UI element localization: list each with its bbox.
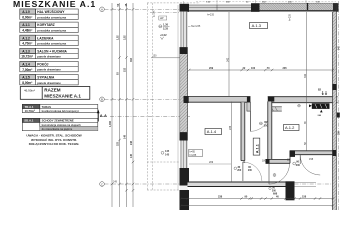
svg-text:342: 342 bbox=[304, 73, 307, 78]
svg-text:MIESZKANIE A.1: MIESZKANIE A.1 bbox=[44, 93, 81, 98]
svg-text:249: 249 bbox=[113, 181, 118, 184]
dimension line left 4 bbox=[132, 3, 134, 207]
svg-text:RAZEM: RAZEM bbox=[44, 88, 61, 93]
svg-text:209: 209 bbox=[209, 161, 214, 164]
svg-text:209: 209 bbox=[209, 67, 214, 70]
svg-text:145: 145 bbox=[130, 153, 133, 158]
left wall bottom column bbox=[180, 190, 190, 210]
svg-text:4,48m²: 4,48m² bbox=[22, 29, 32, 33]
svg-text:1,52: 1,52 bbox=[117, 35, 120, 40]
door salon to corridor: leaf bbox=[249, 111, 251, 131]
svg-text:panele drewniane: panele drewniane bbox=[37, 68, 61, 72]
washer / appliance block in bathroom bbox=[309, 103, 330, 112]
svg-text:158: 158 bbox=[302, 196, 307, 199]
corridor bottom wall bbox=[266, 159, 291, 163]
fixture / wall stub right of door bbox=[268, 107, 282, 111]
svg-text:POKÓJ: POKÓJ bbox=[37, 62, 48, 67]
svg-text:h=235: h=235 bbox=[289, 13, 292, 21]
svg-text:SYPIALNIA: SYPIALNIA bbox=[37, 76, 55, 80]
room table row A.1.3 bbox=[20, 48, 78, 58]
axis line B bbox=[105, 98, 191, 100]
svg-text:180: 180 bbox=[262, 160, 267, 163]
svg-text:16,72m²: 16,72m² bbox=[21, 55, 33, 59]
cropped dimension texts at top edge bbox=[206, 1, 320, 4]
terrace dashed top edge bbox=[147, 2, 200, 4]
svg-text:7,00m²: 7,00m² bbox=[22, 68, 32, 72]
salon horizontal dimension line bbox=[189, 69, 333, 71]
svg-text:KORYTARZ: KORYTARZ bbox=[37, 23, 54, 27]
svg-text:158: 158 bbox=[309, 158, 314, 161]
svg-text:B: B bbox=[101, 98, 103, 102]
door arc bathroom entry bbox=[300, 155, 320, 175]
bottom porch edge lines bbox=[295, 182, 317, 184]
axis line C bbox=[105, 183, 337, 185]
svg-text:148: 148 bbox=[124, 134, 127, 139]
svg-text:238: 238 bbox=[218, 196, 223, 199]
svg-text:kostka brukowa lub kompozyt: kostka brukowa lub kompozyt bbox=[42, 109, 79, 113]
window label LW bbox=[159, 16, 167, 20]
svg-text:konstrukcja stalowa na słupach: konstrukcja stalowa na słupach bbox=[42, 123, 81, 127]
dimension ticks left lines bbox=[111, 8, 134, 191]
svg-text:MIESZKANIE A.1: MIESZKANIE A.1 bbox=[13, 0, 96, 9]
svg-text:posadzka ceramiczna: posadzka ceramiczna bbox=[37, 15, 66, 19]
svg-text:1,30: 1,30 bbox=[163, 23, 169, 27]
svg-text:3,52: 3,52 bbox=[124, 35, 127, 40]
interior wall A.1.4 / corridor vertical bbox=[241, 102, 245, 160]
svg-text:A: A bbox=[101, 8, 103, 12]
terrace step line bbox=[151, 57, 180, 59]
top wall column left corner bbox=[180, 4, 190, 12]
svg-text:8,00m²: 8,00m² bbox=[22, 81, 32, 85]
door jamb stub at salon door bbox=[247, 97, 251, 103]
bottom wall column bbox=[286, 181, 295, 200]
svg-text:46,90m²: 46,90m² bbox=[24, 89, 35, 93]
extension lines above top wall bbox=[216, 0, 218, 5]
svg-text:145: 145 bbox=[165, 154, 170, 157]
svg-text:A.1.4: A.1.4 bbox=[22, 63, 30, 67]
svg-text:10,70m²: 10,70m² bbox=[25, 109, 35, 113]
right wall dark block lower bbox=[337, 113, 340, 118]
level label +1,30 2,35 bbox=[159, 23, 170, 31]
summary row RAZEM MIESZKANIE A.1 bbox=[20, 87, 90, 100]
top wall masonry right part bbox=[260, 3, 338, 11]
svg-text:200: 200 bbox=[296, 164, 301, 167]
svg-text:235: 235 bbox=[283, 67, 288, 70]
door label 80/200 corridor door bbox=[248, 166, 253, 172]
svg-text:h=235: h=235 bbox=[207, 14, 215, 17]
interior wall corridor / bathroom vertical bbox=[268, 101, 272, 159]
svg-text:200: 200 bbox=[264, 124, 269, 127]
dimension line left 1 bbox=[111, 3, 113, 207]
svg-text:DOŁĄCZONYCH DO DOK. TECHN.: DOŁĄCZONYCH DO DOK. TECHN. bbox=[29, 142, 80, 146]
svg-text:SD.A.1: SD.A.1 bbox=[24, 119, 33, 123]
left wall window lower bbox=[180, 141, 188, 169]
terrace dashed mid edge bbox=[147, 161, 180, 163]
svg-text:h=235: h=235 bbox=[190, 154, 197, 157]
svg-text:152: 152 bbox=[124, 67, 127, 72]
door label 90/200 (corridor door) bbox=[234, 166, 242, 172]
door label 80/200 (A.1.4 door) bbox=[260, 121, 269, 128]
header label h=95 h=235 box bbox=[189, 150, 203, 157]
svg-text:150: 150 bbox=[153, 55, 158, 58]
door corridor to A.1.4: leaf bbox=[242, 162, 244, 181]
left wall column at terrace door bbox=[180, 168, 190, 186]
table row TARAS bbox=[22, 104, 98, 112]
left wall column bbox=[180, 132, 188, 140]
svg-text:100: 100 bbox=[251, 67, 256, 70]
dimension line left 2 bbox=[119, 3, 121, 207]
svg-text:SALON + KUCHNIA: SALON + KUCHNIA bbox=[37, 49, 67, 53]
svg-text:posadzka ceramiczna: posadzka ceramiczna bbox=[37, 28, 66, 32]
room table row A.1.4 bbox=[20, 61, 78, 71]
svg-text:A.1.0: A.1.0 bbox=[22, 10, 30, 14]
svg-text:200: 200 bbox=[248, 169, 253, 172]
svg-text:HAL WEJŚCIOWY: HAL WEJŚCIOWY bbox=[37, 9, 65, 14]
axis circle C bbox=[100, 182, 105, 187]
svg-text:LW: LW bbox=[160, 16, 164, 20]
svg-text:4,70m²: 4,70m² bbox=[22, 42, 32, 46]
svg-text:panele drewniane: panele drewniane bbox=[37, 81, 61, 85]
door salon to corridor: swing arc bbox=[250, 111, 270, 131]
svg-text:A.1.2: A.1.2 bbox=[22, 36, 30, 40]
section marker A-A arrow bbox=[97, 109, 107, 121]
bottom dimension line 2 bbox=[181, 205, 333, 207]
top wall window band left bbox=[188, 5, 252, 11]
svg-text:SCHODY ZEWNĘTRZNE: SCHODY ZEWNĘTRZNE bbox=[42, 119, 74, 123]
svg-text:363: 363 bbox=[130, 57, 133, 62]
door label 90/200 hall door bbox=[269, 186, 277, 192]
bottom wall left segment bbox=[188, 182, 286, 187]
svg-text:TARAS: TARAS bbox=[42, 105, 52, 109]
door arc hall to corridor bbox=[269, 164, 290, 185]
window label 145/145 (A.1.4 window) bbox=[161, 150, 170, 157]
room label A.1.1 rotated bbox=[253, 138, 260, 155]
svg-text:+0,02: +0,02 bbox=[160, 33, 167, 37]
svg-text:panele drewniane: panele drewniane bbox=[37, 55, 61, 59]
svg-text:A.1.4: A.1.4 bbox=[207, 129, 217, 134]
door label circle corridor bbox=[273, 174, 276, 177]
svg-text:342: 342 bbox=[226, 57, 229, 62]
room table row A.1.2 bbox=[20, 35, 78, 45]
wall cap corridor bottom left bbox=[266, 159, 270, 164]
room table row A.1.1 bbox=[20, 22, 78, 32]
door corridor to A.1.4: swing arc bbox=[243, 162, 262, 181]
svg-text:236: 236 bbox=[229, 125, 232, 130]
svg-text:A.1.1: A.1.1 bbox=[22, 23, 30, 27]
svg-text:A.1.3: A.1.3 bbox=[252, 23, 262, 28]
top wall inner face line bbox=[188, 11, 338, 13]
A.1.4 vertical dimension line bbox=[231, 102, 233, 183]
axis line A bbox=[105, 8, 339, 10]
svg-text:posadzka ceramiczna: posadzka ceramiczna bbox=[37, 42, 66, 46]
axis stub at wall top bbox=[150, 11, 180, 13]
room table row A.1.0 bbox=[20, 9, 78, 19]
right wall dark block upper bbox=[333, 84, 337, 90]
terrace edge line right bbox=[177, 5, 179, 190]
left wall terrace door gap bbox=[180, 186, 188, 191]
door label 90/200 (bathroom door) bbox=[293, 161, 301, 168]
wall cap bath top-left corner bbox=[268, 96, 275, 101]
room label A.1.2 bbox=[284, 125, 300, 131]
note UWAGA bbox=[26, 133, 81, 146]
terrace dashed bottom edge bbox=[147, 189, 188, 191]
left wall column bbox=[180, 47, 188, 54]
wall cap at bath door jamb bbox=[290, 150, 296, 157]
svg-text:A-A: A-A bbox=[100, 113, 107, 118]
table row SCHODY ZEWNETRZNE bbox=[22, 118, 98, 130]
svg-text:323: 323 bbox=[117, 141, 120, 146]
svg-text:1,006: 1,006 bbox=[109, 120, 112, 127]
svg-text:A.1.2: A.1.2 bbox=[285, 125, 295, 130]
svg-text:6,00m²: 6,00m² bbox=[22, 15, 32, 19]
svg-text:2,35: 2,35 bbox=[163, 26, 169, 30]
right wall junction block bbox=[333, 150, 337, 156]
dimension numbers left lines bbox=[109, 3, 133, 158]
room label A.1.4 bbox=[205, 129, 222, 135]
svg-text:248: 248 bbox=[130, 140, 133, 145]
interior wall salon/bathroom bbox=[268, 97, 338, 103]
svg-text:h=135: h=135 bbox=[154, 10, 156, 17]
terrace dashed outline left inner bbox=[151, 3, 153, 190]
left wall masonry middle bbox=[180, 54, 188, 132]
axis circle B bbox=[100, 97, 105, 102]
svg-text:do mieszkania na piętrze: do mieszkania na piętrze bbox=[42, 127, 73, 131]
level label +0,02 bbox=[160, 33, 167, 39]
top dashed line above wall bbox=[196, 1, 336, 3]
room table row A.1.5 bbox=[20, 75, 78, 85]
bottom dimension line 1 bbox=[181, 198, 333, 200]
left wall window upper bbox=[180, 12, 188, 48]
vertical axis line right bbox=[338, 1, 340, 210]
top right corner column bbox=[333, 3, 339, 11]
axis circle A bbox=[100, 7, 105, 12]
wall cap at left wall junction bbox=[184, 96, 189, 103]
room label A.1.3 bbox=[250, 23, 268, 29]
right wall bbox=[333, 3, 337, 210]
salon vertical dimension line right bbox=[306, 12, 308, 151]
salon vertical dimension line left bbox=[228, 12, 230, 96]
label 82 with arrows above washer bbox=[318, 87, 327, 95]
top wall column middle bbox=[251, 3, 260, 11]
bathroom bottom wall bbox=[290, 151, 334, 164]
svg-text:Nw=235: Nw=235 bbox=[191, 25, 201, 28]
section line A-A bbox=[110, 115, 190, 117]
svg-text:A.1.1: A.1.1 bbox=[256, 144, 260, 153]
vertical axis line through left wall bbox=[183, 1, 185, 203]
svg-text:ŁAZIENKA: ŁAZIENKA bbox=[37, 36, 54, 40]
svg-text:200: 200 bbox=[237, 169, 242, 172]
terrace dashed outline left bbox=[146, 3, 148, 190]
dimension line left 3 bbox=[126, 3, 128, 207]
svg-text:A.1.5: A.1.5 bbox=[22, 76, 30, 80]
interior wall salon/A.1.4 bbox=[188, 97, 251, 103]
svg-text:A.1.3: A.1.3 bbox=[22, 49, 30, 53]
